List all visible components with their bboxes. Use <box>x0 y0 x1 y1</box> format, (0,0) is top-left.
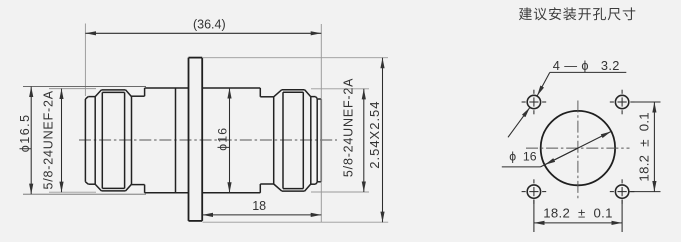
svg-text:ϕ 16: ϕ 16 <box>509 149 537 163</box>
right neck <box>260 96 273 98</box>
body left shoulder <box>144 88 146 96</box>
svg-text:(36.4): (36.4) <box>193 18 226 32</box>
diameter arrow lower left <box>545 148 578 165</box>
right nut hex line <box>283 91 303 93</box>
big circle phi16 mounting hole <box>541 111 615 185</box>
right step chamfer <box>316 97 318 99</box>
diameter arrow upper right <box>541 132 612 167</box>
left nut chamfer right <box>126 90 132 97</box>
main body left of flange <box>145 87 189 89</box>
right body shoulder <box>259 88 261 97</box>
dim line phi16 <box>229 88 231 193</box>
left nut hex edge 2 <box>124 92 126 188</box>
svg-text:18.2 ± 0.1: 18.2 ± 0.1 <box>637 112 652 182</box>
dim line phi16.5 <box>30 87 32 195</box>
svg-text:ϕ16: ϕ16 <box>215 127 229 151</box>
small hole top-right phi3.2 <box>615 95 628 108</box>
left thread section top/bottom <box>88 96 95 98</box>
dim (36.4) extension lines <box>84 24 86 97</box>
dim line 18.2 bottom <box>534 222 622 224</box>
svg-text:5/8-24UNEF-2A: 5/8-24UNEF-2A <box>342 78 356 177</box>
dim 18.2 +-0.1 right extension lines <box>634 101 661 103</box>
left neck <box>132 95 145 97</box>
dim line thread left <box>61 89 63 193</box>
dim line (36.4) <box>85 32 321 34</box>
dim 5/8-24UNEF-2A left extension lines <box>49 88 96 90</box>
right end face <box>320 99 322 182</box>
flange <box>188 58 190 221</box>
dim line 18.2 right <box>653 102 655 192</box>
right nut hex edge 1 <box>282 92 284 188</box>
small hole bottom-left phi3.2 <box>527 185 540 198</box>
dim 5/8-24UNEF-2A right extension lines <box>311 88 369 90</box>
dim line 18 <box>202 214 321 216</box>
svg-text:ϕ16.5: ϕ16.5 <box>18 113 32 152</box>
left nut chamfer left <box>95 90 101 97</box>
left coupling nut <box>94 97 96 185</box>
circle centerline vertical <box>577 101 579 199</box>
small hole bottom-right phi3.2 <box>615 185 628 198</box>
body groove line <box>175 88 177 193</box>
left nut flats <box>101 89 125 91</box>
phi16 body right of flange <box>202 87 260 89</box>
svg-text:18.2 ± 0.1: 18.2 ± 0.1 <box>543 205 613 220</box>
right end section top/bottom <box>317 98 321 100</box>
svg-text:4 — ϕ 3.2: 4 — ϕ 3.2 <box>553 58 620 73</box>
dim line 2.54X2.54 <box>382 58 384 223</box>
left nut hex edge 1 <box>101 92 103 188</box>
right nut chamfer left <box>274 90 282 97</box>
right nut chamfer right <box>305 90 311 97</box>
leader arrow to top-left hole <box>537 72 550 95</box>
right nut flats <box>282 89 305 91</box>
left nut hex line <box>102 91 124 93</box>
svg-text:2.54X2.54: 2.54X2.54 <box>367 100 382 168</box>
right coupling nut <box>273 97 275 184</box>
dim 18.2 +-0.1 bottom extension lines <box>533 200 535 233</box>
right nut hex edge 2 <box>302 92 304 188</box>
small hole top-left phi3.2 <box>527 95 540 108</box>
connector left end face <box>84 99 86 182</box>
centerline left view <box>79 139 337 141</box>
svg-text:18: 18 <box>252 199 266 213</box>
left end chamfer <box>85 97 88 99</box>
dim phi16.5 extension lines <box>23 86 146 88</box>
circle centerline horizontal <box>526 147 630 149</box>
right thread shoulder <box>316 98 318 182</box>
dim line thread right <box>363 89 365 192</box>
title text 建议安装开孔尺寸 <box>519 7 635 20</box>
dim 2.54X2.54 extension lines <box>202 57 388 59</box>
svg-text:5/8-24UNEF-2A: 5/8-24UNEF-2A <box>42 90 56 189</box>
right step <box>311 96 316 98</box>
second leader arrow to top-left hole <box>508 107 530 137</box>
